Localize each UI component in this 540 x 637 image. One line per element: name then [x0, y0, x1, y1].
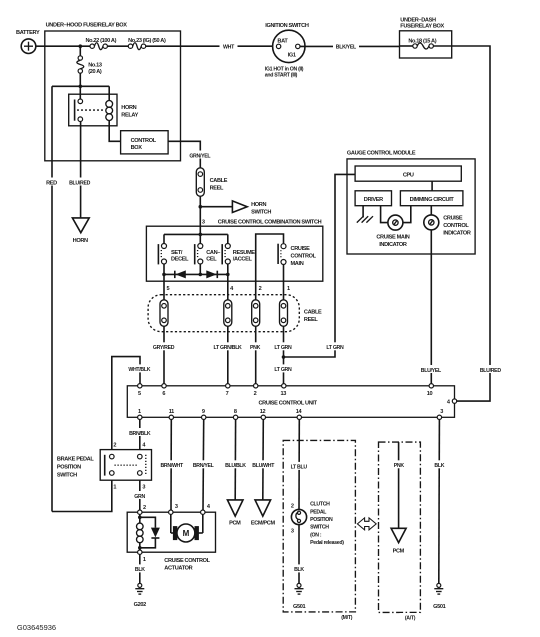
- svg-text:CRUISE CONTROL: CRUISE CONTROL: [164, 558, 210, 564]
- svg-text:HORN: HORN: [251, 202, 266, 208]
- svg-text:UNDER–HOOD FUSE/RELAY BOX: UNDER–HOOD FUSE/RELAY BOX: [46, 23, 128, 29]
- node bus junction: [199, 233, 203, 237]
- svg-text:BLU/YEL: BLU/YEL: [421, 368, 442, 374]
- svg-text:12: 12: [260, 409, 266, 415]
- pin 4: [452, 399, 456, 403]
- svg-text:8: 8: [234, 409, 237, 415]
- svg-text:CLUTCH: CLUTCH: [310, 502, 330, 508]
- svg-text:LT BLU: LT BLU: [291, 465, 308, 471]
- svg-text:SWITCH: SWITCH: [57, 473, 77, 479]
- svg-text:BLK: BLK: [294, 567, 304, 573]
- svg-text:ECM/PCM: ECM/PCM: [251, 521, 276, 527]
- DRIVER: [355, 191, 391, 206]
- svg-text:1: 1: [113, 485, 116, 491]
- svg-text:No.13: No.13: [88, 63, 102, 69]
- pin 8: [233, 415, 237, 419]
- svg-text:G03645936: G03645936: [17, 623, 56, 632]
- node LT GRN junction: [282, 355, 286, 359]
- svg-text:1: 1: [287, 286, 290, 292]
- wire LT GRN/BLK to pin 7: [211, 326, 245, 386]
- wire GRN/YEL control box to cable reel: [168, 141, 212, 168]
- cable reel contact 3: [252, 300, 260, 327]
- svg-text:13: 13: [281, 391, 287, 397]
- wire brake pin 1 to RED: [52, 480, 112, 511]
- svg-text:(20 A): (20 A): [88, 69, 102, 75]
- svg-text:2: 2: [143, 505, 146, 511]
- wire PNK to PCM (A/T): [391, 442, 406, 528]
- wire BLU/BLK pin 8 to PCM: [223, 420, 249, 500]
- wire GRN brake pin 3 to actuator: [131, 480, 149, 511]
- fuse No.13 (20 A): [77, 46, 102, 86]
- node coil bottom: [138, 546, 142, 550]
- svg-text:BRN/BLK: BRN/BLK: [129, 431, 151, 437]
- svg-text:CONTROL: CONTROL: [291, 254, 317, 260]
- svg-text:2: 2: [113, 442, 116, 448]
- wire WHT box to ignition switch: [181, 42, 273, 50]
- cable reel (lower): [148, 295, 322, 332]
- motor M: [171, 514, 203, 542]
- wire to horn switch: [200, 206, 232, 208]
- pin 1: [138, 415, 142, 419]
- pin 6: [162, 384, 166, 388]
- svg-text:2: 2: [254, 391, 257, 397]
- ground G501 (M/T): [293, 583, 306, 609]
- svg-text:10: 10: [427, 391, 433, 397]
- battery: [16, 30, 40, 54]
- ignition switch: [265, 23, 309, 78]
- cable reel (upper): [196, 168, 227, 197]
- svg-text:INDICATOR: INDICATOR: [443, 231, 471, 237]
- actuator pin 4: [201, 510, 205, 514]
- svg-text:CONTROL: CONTROL: [131, 138, 157, 144]
- wire RED down left side: [43, 86, 60, 511]
- CPU: [355, 166, 461, 181]
- svg-text:1: 1: [138, 409, 141, 415]
- pin 5: [138, 384, 142, 388]
- pin labels combo box: [167, 286, 291, 292]
- svg-text:BLU/RED: BLU/RED: [69, 180, 91, 186]
- M/T A/T arrow: [357, 518, 376, 530]
- switch SET/DECEL: [158, 234, 189, 281]
- wire LT GRN to pin 13: [273, 326, 294, 386]
- svg-text:No.23 (IG) (50 A): No.23 (IG) (50 A): [128, 38, 166, 44]
- svg-text:POSITION: POSITION: [310, 517, 333, 523]
- svg-text:RELAY: RELAY: [121, 113, 138, 119]
- ground G202: [134, 583, 147, 608]
- wire BLU/RED right side down to pin 4: [452, 46, 503, 401]
- horn relay: [69, 86, 139, 125]
- svg-text:G501: G501: [293, 604, 306, 610]
- cable reel contact 4: [280, 300, 288, 327]
- pin 10: [429, 384, 433, 388]
- svg-text:INDICATOR: INDICATOR: [379, 242, 407, 248]
- svg-text:BLU/RED: BLU/RED: [480, 368, 502, 374]
- wire PNK to pin 2: [248, 326, 263, 386]
- svg-text:CRUISE CONTROL UNIT: CRUISE CONTROL UNIT: [258, 401, 317, 407]
- wire BLU/RED relay to horn: [68, 122, 92, 218]
- svg-text:Pedal released): Pedal released): [310, 540, 344, 546]
- svg-text:ACTUATOR: ACTUATOR: [164, 566, 192, 572]
- svg-text:MAIN: MAIN: [291, 261, 304, 267]
- ground G501 (right): [433, 583, 446, 609]
- svg-text:6: 6: [162, 391, 165, 397]
- svg-text:No.18 (15 A): No.18 (15 A): [408, 38, 436, 44]
- under-dash fuse/relay box: [400, 17, 452, 58]
- svg-text:BAT: BAT: [277, 39, 288, 45]
- svg-text:M: M: [183, 529, 190, 538]
- wire junction bar: [52, 85, 109, 87]
- svg-text:BATTERY: BATTERY: [16, 30, 40, 36]
- actuator pin 1: [138, 550, 142, 554]
- svg-text:3: 3: [440, 409, 443, 415]
- node relay feed junction: [79, 85, 83, 89]
- horn: [72, 218, 89, 244]
- wire fuse 23 to box edge: [146, 45, 181, 47]
- ground (driver): [357, 206, 373, 223]
- wire bus top: [164, 233, 228, 235]
- fuse No.23 (IG) (50 A): [128, 38, 166, 49]
- pin 7: [226, 384, 230, 388]
- svg-text:CRUISE: CRUISE: [443, 216, 463, 222]
- pin 2: [254, 384, 258, 388]
- svg-text:BLK: BLK: [135, 567, 145, 573]
- PCM (A/T): [391, 528, 406, 554]
- wire indicator to dimming circuit: [403, 206, 411, 223]
- cruise control indicator: [424, 215, 471, 237]
- svg-text:2: 2: [259, 286, 262, 292]
- actuator pin 3: [169, 510, 173, 514]
- wire horn relay coil to control box: [109, 121, 120, 142]
- svg-text:/ACCEL: /ACCEL: [233, 257, 253, 263]
- svg-text:WHT/BLK: WHT/BLK: [128, 367, 150, 373]
- svg-text:9: 9: [202, 409, 205, 415]
- svg-text:CABLE: CABLE: [304, 310, 322, 316]
- wire driver to cruise main indicator: [381, 206, 388, 223]
- svg-text:3: 3: [142, 485, 145, 491]
- svg-text:CEL: CEL: [206, 257, 217, 263]
- switch CAN-CEL: [195, 234, 221, 274]
- wire LT GRN branch to CPU: [284, 174, 356, 357]
- cruise control actuator: [127, 512, 215, 571]
- gauge control module: [347, 151, 475, 254]
- pin 13: [282, 384, 286, 388]
- horn switch: [232, 201, 271, 216]
- wire battery to under-hood box: [36, 45, 90, 47]
- fuse No.22 (100 A): [85, 38, 116, 49]
- svg-text:CRUISE MAIN: CRUISE MAIN: [376, 234, 409, 240]
- cruise main indicator: [376, 215, 409, 248]
- svg-text:DRIVER: DRIVER: [364, 197, 383, 203]
- switch RESUME/ACCEL: [222, 234, 255, 281]
- svg-text:3: 3: [291, 529, 294, 535]
- svg-text:2: 2: [291, 503, 294, 509]
- under-hood fuse/relay box: [45, 23, 181, 161]
- actuator relay coil: [137, 514, 144, 550]
- DIMMING CIRCUIT: [400, 191, 463, 206]
- diode D2: [206, 270, 217, 278]
- wires combo box to cable reel: [163, 281, 165, 300]
- wire LT BLU pin 14 to clutch switch: [288, 420, 310, 510]
- wire main switch bridge: [256, 234, 284, 281]
- svg-text:FUSE/RELAY BOX: FUSE/RELAY BOX: [400, 24, 444, 30]
- svg-text:CRUISE CONTROL COMBINATION SWI: CRUISE CONTROL COMBINATION SWITCH: [218, 219, 322, 225]
- svg-text:BRN/YEL: BRN/YEL: [193, 463, 215, 469]
- svg-text:BLU/BLK: BLU/BLK: [225, 463, 246, 469]
- svg-text:RED: RED: [46, 180, 57, 186]
- wire BRN/YEL pin 9 to actuator pin 4: [190, 420, 217, 511]
- svg-text:IGNITION SWITCH: IGNITION SWITCH: [265, 23, 309, 29]
- fuse No.18 (15 A): [400, 38, 452, 49]
- svg-text:11: 11: [169, 409, 174, 415]
- wire BRN/WHT pin 11 to actuator pin 3: [158, 420, 185, 511]
- svg-text:LT GRN: LT GRN: [274, 367, 292, 373]
- svg-text:PCM: PCM: [229, 521, 241, 527]
- wire BLK pin 3 to G501: [431, 420, 447, 584]
- wire CPU to dimming circuit: [431, 181, 433, 191]
- svg-text:(A/T): (A/T): [405, 615, 416, 621]
- pin 12: [261, 415, 265, 419]
- PCM: [227, 500, 243, 527]
- svg-text:GRN/YEL: GRN/YEL: [189, 153, 211, 159]
- svg-text:REEL: REEL: [304, 317, 318, 323]
- svg-text:LT GRN: LT GRN: [326, 345, 344, 351]
- svg-text:PNK: PNK: [250, 345, 261, 351]
- node horn switch tap: [199, 205, 203, 209]
- svg-text:BOX: BOX: [131, 145, 143, 151]
- svg-text:(ON :: (ON :: [310, 532, 322, 538]
- wire dimming to cruise control indicator: [430, 206, 432, 215]
- svg-text:LT GRN/BLK: LT GRN/BLK: [213, 345, 242, 351]
- svg-text:REEL: REEL: [210, 185, 224, 191]
- svg-text:BLK: BLK: [434, 463, 444, 469]
- cable reel contact 1: [160, 300, 168, 327]
- node fuse No.13 tap: [79, 44, 83, 48]
- svg-text:1: 1: [143, 557, 146, 563]
- svg-text:HORN: HORN: [73, 238, 88, 244]
- svg-text:WHT: WHT: [223, 45, 235, 51]
- svg-text:No.22 (100 A): No.22 (100 A): [85, 38, 116, 44]
- diode D1: [175, 270, 186, 278]
- svg-text:SET/: SET/: [171, 250, 183, 256]
- svg-text:CPU: CPU: [403, 172, 414, 178]
- svg-text:PEDAL: PEDAL: [310, 509, 327, 515]
- wire BLU/YEL indicator to pin 10: [419, 230, 444, 386]
- svg-text:and START (III): and START (III): [265, 72, 298, 78]
- wire WHT/BLK bridge pin 5 to brake switch: [112, 357, 153, 450]
- wire BLU/WHT pin 12 to ECM/PCM: [250, 420, 277, 500]
- svg-text:7: 7: [226, 391, 229, 397]
- svg-text:SWITCH: SWITCH: [251, 210, 271, 216]
- cable reel contact 2: [224, 300, 232, 327]
- svg-text:IG1: IG1: [288, 52, 296, 58]
- svg-text:GAUGE CONTROL MODULE: GAUGE CONTROL MODULE: [347, 151, 416, 157]
- wire BLK to G501 (M/T): [291, 525, 307, 584]
- cruise control combination switch box: [146, 219, 322, 281]
- svg-text:PCM: PCM: [393, 549, 405, 555]
- svg-text:CRUISE: CRUISE: [291, 246, 311, 252]
- svg-text:DECEL: DECEL: [171, 257, 189, 263]
- pin 14: [297, 415, 301, 419]
- actuator diode: [140, 517, 160, 548]
- svg-text:CONTROL: CONTROL: [443, 223, 469, 229]
- svg-text:RESUME: RESUME: [233, 250, 255, 256]
- A/T box: [379, 442, 421, 621]
- svg-text:G501: G501: [433, 604, 446, 610]
- clutch pedal position switch: [291, 502, 344, 546]
- svg-text:5: 5: [167, 286, 170, 292]
- svg-text:CAN–: CAN–: [206, 250, 220, 256]
- brake pedal position switch: [57, 442, 152, 490]
- node coil top: [138, 516, 142, 520]
- pin 3: [437, 415, 441, 419]
- svg-text:POSITION: POSITION: [57, 465, 81, 471]
- svg-text:LT GRN: LT GRN: [274, 345, 292, 351]
- svg-text:CABLE: CABLE: [210, 178, 228, 184]
- wire BLK to G202: [132, 554, 148, 583]
- pin 9: [202, 415, 206, 419]
- svg-text:G202: G202: [134, 602, 147, 608]
- M/T box: [283, 440, 358, 620]
- svg-text:BRN/WHT: BRN/WHT: [160, 463, 184, 469]
- wire between fuses: [107, 45, 128, 47]
- ECM/PCM: [251, 500, 276, 527]
- svg-text:5: 5: [138, 391, 141, 397]
- svg-text:(M/T): (M/T): [341, 615, 352, 621]
- wire BRN/BLK pin 1 to brake switch: [127, 420, 154, 450]
- svg-text:BLU/WHT: BLU/WHT: [252, 463, 275, 469]
- svg-text:3: 3: [202, 219, 205, 225]
- wire reel to combo switch: [199, 196, 201, 234]
- svg-text:BLK/YEL: BLK/YEL: [336, 45, 357, 51]
- svg-text:GRY/RED: GRY/RED: [153, 345, 175, 351]
- svg-text:HORN: HORN: [121, 105, 136, 111]
- pin 11: [169, 415, 173, 419]
- svg-text:DIMMING CIRCUIT: DIMMING CIRCUIT: [410, 197, 455, 203]
- svg-text:GRN: GRN: [134, 494, 145, 500]
- svg-text:SWITCH: SWITCH: [310, 525, 329, 531]
- svg-text:3: 3: [175, 504, 178, 510]
- actuator pin 2: [138, 510, 142, 514]
- svg-text:UNDER–DASH: UNDER–DASH: [400, 17, 436, 23]
- wire BLK/YEL ignition to under-dash box: [300, 42, 400, 50]
- wire diode bus: [164, 273, 228, 275]
- cruise control unit: [127, 386, 454, 418]
- svg-text:BRAKE PEDAL: BRAKE PEDAL: [57, 456, 94, 462]
- wire GRY/RED to pin 6: [151, 326, 177, 386]
- control box: [121, 131, 169, 154]
- switch CRUISE CONTROL MAIN: [278, 244, 317, 282]
- svg-text:PNK: PNK: [394, 463, 405, 469]
